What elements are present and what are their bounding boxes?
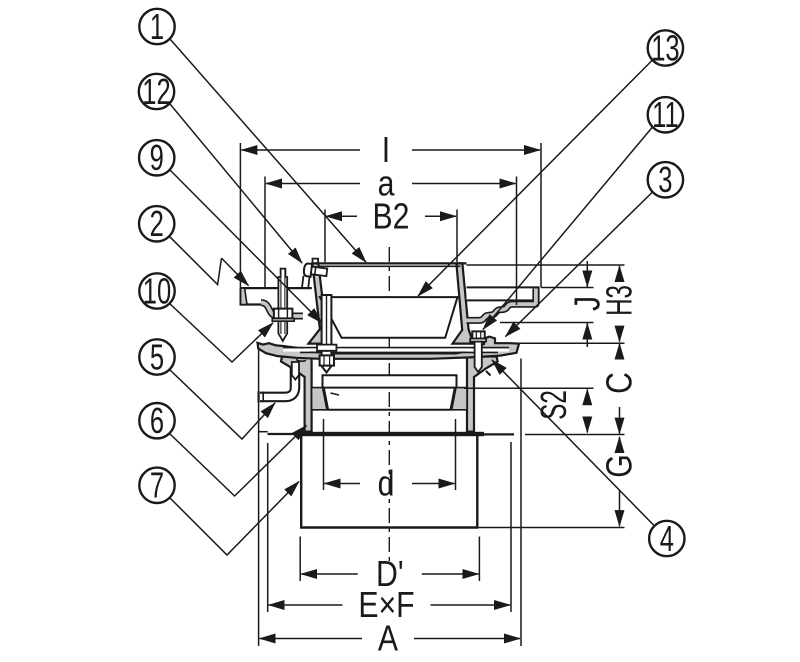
ext line D' right: [478, 537, 480, 582]
dimension S2: [534, 389, 587, 432]
packing right edge: [451, 388, 455, 410]
dimension ExF: [269, 586, 510, 626]
balloon 13: [648, 27, 683, 69]
ext line B2 right: [456, 210, 458, 263]
svg-text:d: d: [378, 464, 395, 504]
balloon 9: [139, 137, 174, 179]
balloon 5: [139, 336, 174, 378]
ext line ExF right: [510, 442, 512, 612]
leader to balloon 7 (duct): [169, 482, 299, 556]
strainer cone: [320, 297, 458, 338]
hex bolt shank: [475, 342, 482, 372]
ext line spigot bottom right: [464, 387, 594, 389]
ext line duct bottom right: [479, 527, 625, 529]
leader to balloon 11 (hex bolt): [483, 127, 653, 330]
balloon 2: [139, 203, 174, 245]
hidden line dash left: [296, 360, 306, 362]
deck stud nut: [320, 355, 334, 365]
balloon 3: [648, 159, 683, 201]
svg-text:11: 11: [652, 94, 679, 136]
svg-text:7: 7: [150, 464, 164, 506]
sleeve duct left wall: [300, 436, 302, 528]
leader to balloon 2 (wing): [170, 237, 222, 285]
svg-text:6: 6: [150, 400, 164, 442]
caulking right: [451, 388, 467, 410]
leader to balloon 5 (elbow): [169, 369, 275, 439]
dimension A: [260, 619, 520, 659]
ext line wing bottom right: [500, 322, 594, 324]
ext line wing top right: [541, 287, 594, 289]
leader to balloon 10 (stud nut): [169, 303, 273, 362]
hex bolt: [472, 331, 484, 338]
dimension H3: [600, 266, 640, 342]
svg-text:1: 1: [150, 5, 164, 47]
ext line d left: [323, 419, 325, 490]
left wing S-jog seal leg: [261, 303, 303, 316]
svg-text:C: C: [600, 372, 640, 394]
svg-text:2: 2: [150, 203, 164, 245]
balloon 10: [139, 270, 174, 312]
balloon 7: [139, 464, 174, 506]
frame rim top edge: [312, 262, 467, 264]
leader to balloon 3 (deck rim): [506, 192, 653, 337]
svg-text:3: 3: [658, 159, 672, 201]
sleeve duct right wall: [476, 436, 478, 528]
ext line D' left: [299, 537, 301, 582]
caulking left: [312, 388, 328, 410]
leader to balloon 4 (hub joint): [492, 360, 655, 526]
ext line base plate right: [525, 434, 625, 436]
dimension d: [325, 464, 455, 504]
side screw shank: [311, 267, 327, 276]
center line: [388, 247, 390, 563]
balloon 1: [139, 5, 174, 47]
ext line B2 left: [324, 210, 326, 263]
dimension a: [266, 164, 516, 204]
clamp stud nut: [274, 309, 293, 319]
svg-text:12: 12: [142, 70, 170, 112]
svg-text:B2: B2: [373, 197, 410, 237]
svg-text:4: 4: [660, 517, 674, 559]
leader to balloon 1 (frame): [170, 39, 366, 262]
dimension B2: [326, 197, 456, 237]
svg-text:10: 10: [143, 270, 171, 312]
deck plate white strip: [283, 348, 509, 351]
balloon 6: [139, 400, 174, 442]
elbow pipe: [260, 366, 295, 397]
dimension C: [600, 344, 640, 434]
pipe sleeve band: [323, 375, 457, 387]
ext line a right: [516, 177, 518, 306]
leader to balloon 9 (deck boss): [170, 170, 322, 323]
ext line d right: [455, 419, 457, 490]
svg-text:13: 13: [651, 27, 679, 69]
clamp stud bolt: [278, 269, 287, 341]
balloon 12: [139, 70, 174, 112]
hidden line dash lower left: [331, 393, 340, 395]
left wing plate: [241, 287, 312, 289]
left wing lip: [241, 288, 247, 304]
deck stud bolt: [322, 295, 332, 373]
lower stud left: [292, 362, 299, 380]
svg-text:9: 9: [150, 137, 164, 179]
screw bracket: [302, 276, 303, 288]
dimension D': [301, 555, 478, 595]
deck flange (body rim): [258, 337, 520, 359]
ext line rim top right: [467, 264, 625, 266]
frame rim inner edge: [318, 265, 460, 267]
ext line deck top right: [519, 342, 625, 344]
packing left edge: [323, 388, 327, 410]
frame wall top lip: [313, 259, 319, 264]
base plate flange: [295, 432, 484, 436]
ext line A left: [258, 349, 260, 646]
leader to balloon 6 (hub): [169, 426, 307, 497]
ext line I left: [239, 143, 241, 287]
balloon 11: [648, 94, 683, 136]
leader to balloon 13 (cone): [418, 60, 653, 296]
ext line A right: [520, 359, 522, 647]
right wing staircase seal: [467, 289, 536, 321]
riser frame right wall: [453, 263, 474, 343]
deck plate lower line: [300, 351, 498, 353]
riser frame left wall: [309, 263, 332, 343]
ext line ExF left: [267, 443, 269, 612]
svg-text:G: G: [600, 454, 640, 478]
drain body right hub wall: [467, 357, 498, 432]
side screw head: [302, 263, 328, 290]
balloon 4: [649, 517, 684, 559]
deck plate upper line: [283, 347, 509, 349]
hidden line dash right: [486, 371, 491, 376]
right wing plate: [467, 287, 539, 300]
svg-text:J: J: [568, 296, 608, 311]
svg-text:5: 5: [150, 336, 164, 378]
deck stud washer: [317, 345, 336, 351]
dimension J: [568, 261, 608, 347]
spigot bottom edge: [328, 409, 451, 411]
dimension I: [241, 131, 540, 171]
svg-text:S2: S2: [534, 390, 574, 419]
ext line I right: [540, 143, 542, 287]
ext line a left: [264, 177, 266, 289]
drain body left hub wall: [281, 357, 312, 432]
clamp stud washer: [272, 318, 294, 321]
leader to balloon 12 (side screw): [170, 104, 302, 263]
hex bolt washer: [470, 339, 486, 342]
dimension G: [600, 437, 640, 526]
sleeve duct bottom: [300, 526, 479, 528]
svg-text:A: A: [378, 619, 399, 659]
